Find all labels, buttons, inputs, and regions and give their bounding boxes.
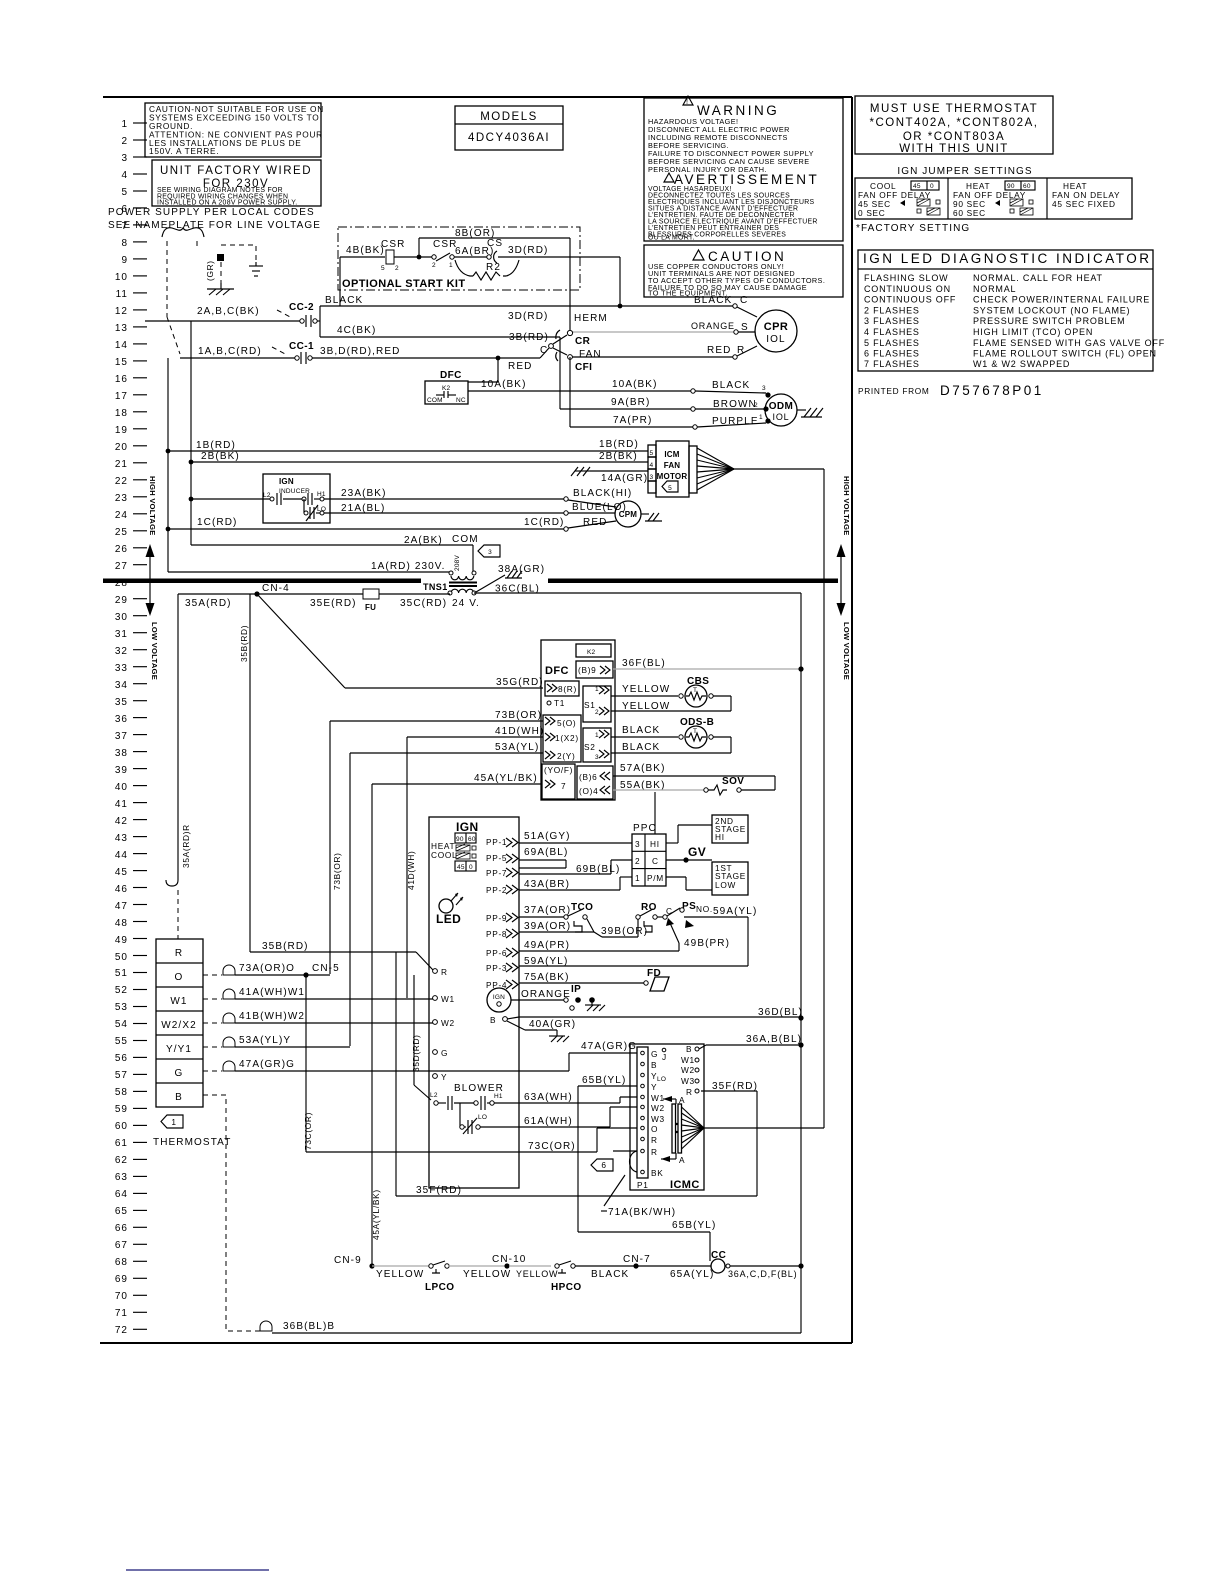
svg-text:14A(GR): 14A(GR) xyxy=(601,473,648,484)
svg-text:(B)6: (B)6 xyxy=(579,772,597,782)
svg-text:HIGH VOLTAGE: HIGH VOLTAGE xyxy=(148,476,157,536)
svg-text:44: 44 xyxy=(115,850,128,861)
svg-text:YELLOW: YELLOW xyxy=(376,1269,424,1280)
svg-text:43A(BR): 43A(BR) xyxy=(524,879,570,890)
svg-text:G: G xyxy=(441,1048,448,1058)
svg-text:3B,D(RD),RED: 3B,D(RD),RED xyxy=(320,346,400,357)
svg-text:H1: H1 xyxy=(494,1093,503,1100)
svg-text:CONTINUOUS ON: CONTINUOUS ON xyxy=(864,284,951,294)
svg-text:9A(BR): 9A(BR) xyxy=(611,397,650,408)
svg-text:YELLOW: YELLOW xyxy=(463,1269,511,1280)
svg-text:1(X2): 1(X2) xyxy=(555,733,579,743)
svg-text:53A(YL)Y: 53A(YL)Y xyxy=(239,1035,291,1046)
svg-text:LPCO: LPCO xyxy=(425,1282,454,1293)
svg-text:R: R xyxy=(651,1147,658,1157)
svg-text:SYSTEM LOCKOUT (NO FLAME): SYSTEM LOCKOUT (NO FLAME) xyxy=(973,305,1130,315)
svg-text:5: 5 xyxy=(381,265,385,272)
svg-text:W1: W1 xyxy=(441,994,455,1004)
svg-text:1: 1 xyxy=(121,119,128,130)
svg-text:COM: COM xyxy=(427,397,443,404)
svg-text:37A(OR): 37A(OR) xyxy=(524,905,571,916)
svg-text:CN-9: CN-9 xyxy=(334,1255,362,1266)
svg-text:60: 60 xyxy=(1023,183,1031,190)
svg-text:45A(YL/BK): 45A(YL/BK) xyxy=(474,773,538,784)
svg-text:R: R xyxy=(686,1087,693,1097)
svg-text:A: A xyxy=(679,1155,685,1165)
svg-text:69A(BL): 69A(BL) xyxy=(524,847,568,858)
svg-text:61: 61 xyxy=(115,1138,128,1149)
svg-text:49A(PR): 49A(PR) xyxy=(524,940,570,951)
svg-text:CONTINUOUS OFF: CONTINUOUS OFF xyxy=(864,295,956,305)
svg-text:39A(OR): 39A(OR) xyxy=(524,921,571,932)
svg-text:W2: W2 xyxy=(441,1018,455,1028)
svg-text:CFI: CFI xyxy=(575,362,592,373)
svg-text:G: G xyxy=(175,1068,184,1079)
svg-text:9: 9 xyxy=(121,255,128,266)
svg-text:68: 68 xyxy=(115,1257,128,1268)
svg-text:35F(RD): 35F(RD) xyxy=(416,1185,462,1196)
svg-text:LOW VOLTAGE: LOW VOLTAGE xyxy=(842,622,851,680)
svg-text:4DCY4036AI: 4DCY4036AI xyxy=(468,132,550,144)
svg-text:RED: RED xyxy=(508,361,532,372)
svg-text:69B(BL): 69B(BL) xyxy=(576,864,620,875)
svg-text:2B(BK): 2B(BK) xyxy=(201,451,240,462)
svg-text:1C(RD): 1C(RD) xyxy=(197,517,238,528)
svg-text:FLASHING SLOW: FLASHING SLOW xyxy=(864,273,948,283)
svg-text:71: 71 xyxy=(115,1308,128,1319)
svg-text:62: 62 xyxy=(115,1155,128,1166)
svg-text:22: 22 xyxy=(115,476,128,487)
svg-text:BROWN: BROWN xyxy=(713,399,757,410)
svg-text:AVERTISSEMENT: AVERTISSEMENT xyxy=(674,172,819,187)
svg-text:1A(RD) 230V.: 1A(RD) 230V. xyxy=(371,561,446,572)
svg-text:3D(RD): 3D(RD) xyxy=(508,311,549,322)
svg-text:CS: CS xyxy=(487,238,503,249)
svg-text:HPCO: HPCO xyxy=(551,1282,582,1293)
svg-text:MODELS: MODELS xyxy=(480,111,538,123)
svg-text:59: 59 xyxy=(115,1104,128,1115)
svg-text:2A,B,C(BK): 2A,B,C(BK) xyxy=(197,306,260,317)
svg-text:3 FLASHES: 3 FLASHES xyxy=(864,316,920,326)
svg-text:60 SEC: 60 SEC xyxy=(953,208,986,218)
svg-text:150V. A TERRE.: 150V. A TERRE. xyxy=(149,146,219,156)
svg-text:25: 25 xyxy=(115,527,128,538)
svg-text:8(R): 8(R) xyxy=(558,684,577,694)
svg-text:2(Y): 2(Y) xyxy=(557,751,575,761)
svg-text:2B(BK): 2B(BK) xyxy=(599,451,638,462)
svg-text:PP-1: PP-1 xyxy=(486,837,507,847)
svg-text:P/M: P/M xyxy=(647,873,664,883)
svg-text:1: 1 xyxy=(595,686,599,693)
svg-text:R2: R2 xyxy=(486,262,501,273)
svg-text:W1: W1 xyxy=(681,1055,695,1065)
svg-text:CC-1: CC-1 xyxy=(289,341,314,352)
svg-text:W3: W3 xyxy=(651,1114,665,1124)
svg-text:CPM: CPM xyxy=(619,510,638,519)
svg-text:CSR: CSR xyxy=(381,239,405,250)
svg-text:20: 20 xyxy=(115,442,128,453)
svg-text:4B(BK): 4B(BK) xyxy=(346,245,385,256)
svg-text:OU LA MORT.: OU LA MORT. xyxy=(648,235,695,242)
svg-text:*FACTORY SETTING: *FACTORY SETTING xyxy=(856,223,970,234)
svg-text:OR *CONT803A: OR *CONT803A xyxy=(903,131,1005,143)
svg-text:CHECK POWER/INTERNAL FAILURE: CHECK POWER/INTERNAL FAILURE xyxy=(973,295,1150,305)
svg-text:PRINTED FROM: PRINTED FROM xyxy=(858,386,930,396)
svg-text:30: 30 xyxy=(115,612,128,623)
svg-text:35G(RD): 35G(RD) xyxy=(496,677,544,688)
svg-text:10A(BK): 10A(BK) xyxy=(481,379,527,390)
svg-text:D757678P01: D757678P01 xyxy=(940,383,1044,398)
svg-text:45A(YL/BK): 45A(YL/BK) xyxy=(371,1189,381,1240)
svg-text:K2: K2 xyxy=(587,649,596,656)
svg-text:18: 18 xyxy=(115,408,128,419)
svg-text:36B(BL)B: 36B(BL)B xyxy=(283,1321,335,1332)
svg-text:65A(YL): 65A(YL) xyxy=(670,1269,714,1280)
svg-text:73A(OR)O: 73A(OR)O xyxy=(239,963,295,974)
svg-text:WARNING: WARNING xyxy=(697,103,779,118)
svg-text:12: 12 xyxy=(115,306,128,317)
svg-text:CN-4: CN-4 xyxy=(262,583,290,594)
svg-text:73C(OR): 73C(OR) xyxy=(303,1112,313,1150)
svg-text:10A(BK): 10A(BK) xyxy=(612,379,658,390)
svg-text:51A(GY): 51A(GY) xyxy=(524,831,571,842)
svg-text:73C(OR): 73C(OR) xyxy=(528,1141,576,1152)
svg-text:7A(PR): 7A(PR) xyxy=(613,415,652,426)
svg-text:C: C xyxy=(652,856,659,866)
svg-text:PP-6: PP-6 xyxy=(486,948,507,958)
svg-text:(O)4: (O)4 xyxy=(579,786,598,796)
svg-text:11: 11 xyxy=(116,289,128,300)
svg-text:90: 90 xyxy=(456,836,464,843)
svg-text:8B(OR): 8B(OR) xyxy=(455,228,496,239)
svg-text:4C(BK): 4C(BK) xyxy=(337,325,376,336)
svg-text:38: 38 xyxy=(115,748,128,759)
svg-text:IGN LED DIAGNOSTIC INDICATOR: IGN LED DIAGNOSTIC INDICATOR xyxy=(863,251,1152,266)
svg-text:35B(RD): 35B(RD) xyxy=(262,941,309,952)
svg-text:1: 1 xyxy=(635,873,640,883)
svg-text:53A(YL): 53A(YL) xyxy=(495,742,539,753)
svg-text:1B(RD): 1B(RD) xyxy=(599,439,639,450)
svg-text:36D(BL): 36D(BL) xyxy=(758,1007,803,1018)
svg-text:Y: Y xyxy=(651,1082,657,1092)
svg-text:55: 55 xyxy=(115,1036,128,1047)
svg-text:72: 72 xyxy=(115,1325,128,1336)
svg-text:0: 0 xyxy=(469,864,473,871)
svg-text:41D(WH): 41D(WH) xyxy=(406,851,416,890)
svg-text:YELLOW: YELLOW xyxy=(516,1269,558,1279)
svg-text:2 FLASHES: 2 FLASHES xyxy=(864,305,920,315)
svg-text:49: 49 xyxy=(115,935,128,946)
svg-text:50: 50 xyxy=(115,952,128,963)
svg-text:O: O xyxy=(651,1124,658,1134)
svg-text:S: S xyxy=(741,322,749,333)
svg-text:17: 17 xyxy=(115,391,128,402)
svg-text:MUST USE THERMOSTAT: MUST USE THERMOSTAT xyxy=(870,103,1038,115)
svg-text:36A,B(BL): 36A,B(BL) xyxy=(746,1034,802,1045)
svg-text:3: 3 xyxy=(762,385,766,392)
svg-text:58: 58 xyxy=(115,1087,128,1098)
svg-text:PP-9: PP-9 xyxy=(486,913,507,923)
svg-text:40A(GR): 40A(GR) xyxy=(529,1019,576,1030)
svg-text:48: 48 xyxy=(115,918,128,929)
svg-text:BLACK: BLACK xyxy=(622,725,660,736)
svg-text:24: 24 xyxy=(115,510,128,521)
svg-text:1: 1 xyxy=(595,732,599,739)
svg-text:B: B xyxy=(175,1092,183,1103)
svg-text:41: 41 xyxy=(115,799,128,810)
svg-text:0: 0 xyxy=(930,183,934,190)
svg-text:47A(GR)G: 47A(GR)G xyxy=(581,1041,637,1052)
svg-text:90: 90 xyxy=(1007,183,1015,190)
svg-text:57A(BK): 57A(BK) xyxy=(620,763,666,774)
svg-text:54: 54 xyxy=(115,1019,128,1030)
svg-text:OPTIONAL START KIT: OPTIONAL START KIT xyxy=(342,278,466,290)
svg-text:COOL: COOL xyxy=(431,850,457,860)
svg-text:Y/Y1: Y/Y1 xyxy=(166,1044,192,1055)
svg-text:PP-5: PP-5 xyxy=(486,853,507,863)
svg-text:15: 15 xyxy=(115,357,128,368)
svg-text:52: 52 xyxy=(115,985,128,996)
svg-text:CN-5: CN-5 xyxy=(312,963,340,974)
svg-text:26: 26 xyxy=(115,544,128,555)
svg-text:LOW: LOW xyxy=(715,880,736,890)
svg-text:YELLOW: YELLOW xyxy=(622,701,670,712)
svg-text:39B(OR): 39B(OR) xyxy=(601,926,648,937)
svg-text:FAN: FAN xyxy=(579,349,602,360)
svg-text:45: 45 xyxy=(913,183,921,190)
svg-text:PPC: PPC xyxy=(633,823,657,834)
svg-text:61A(WH): 61A(WH) xyxy=(524,1116,573,1127)
svg-text:CPR: CPR xyxy=(764,321,788,333)
svg-text:35A(RD)R: 35A(RD)R xyxy=(181,824,191,868)
svg-text:MOTOR: MOTOR xyxy=(657,472,688,481)
svg-text:27: 27 xyxy=(115,561,128,572)
svg-text:R: R xyxy=(651,1135,658,1145)
svg-text:BLACK: BLACK xyxy=(712,380,750,391)
svg-text:65: 65 xyxy=(115,1206,128,1217)
svg-text:1: 1 xyxy=(449,262,453,269)
svg-text:63: 63 xyxy=(115,1172,128,1183)
svg-text:45: 45 xyxy=(115,867,128,878)
svg-text:W1: W1 xyxy=(651,1093,665,1103)
svg-text:59A(YL): 59A(YL) xyxy=(524,956,568,967)
svg-text:2: 2 xyxy=(395,265,399,272)
svg-text:67: 67 xyxy=(115,1240,128,1251)
svg-text:64: 64 xyxy=(115,1189,128,1200)
svg-text:B: B xyxy=(490,1015,496,1025)
svg-text:W2/X2: W2/X2 xyxy=(161,1020,197,1031)
svg-text:3: 3 xyxy=(121,153,128,164)
svg-text:3: 3 xyxy=(595,754,599,761)
svg-text:16: 16 xyxy=(115,374,128,385)
svg-text:5(O): 5(O) xyxy=(557,718,576,728)
svg-text:INDUCER: INDUCER xyxy=(279,488,310,495)
svg-text:!: ! xyxy=(686,97,688,106)
svg-text:DFC: DFC xyxy=(545,665,569,677)
svg-text:B: B xyxy=(651,1060,657,1070)
svg-text:7: 7 xyxy=(561,781,566,791)
svg-text:10: 10 xyxy=(115,272,128,283)
svg-text:R: R xyxy=(175,948,183,959)
svg-text:2: 2 xyxy=(121,136,128,147)
svg-text:73B(OR): 73B(OR) xyxy=(332,852,342,890)
svg-text:4: 4 xyxy=(121,170,128,181)
svg-text:2A(BK): 2A(BK) xyxy=(404,535,443,546)
svg-text:45 SEC FIXED: 45 SEC FIXED xyxy=(1052,199,1116,209)
svg-text:NO.: NO. xyxy=(696,904,713,914)
svg-text:CSR: CSR xyxy=(433,239,457,250)
svg-text:PP-2: PP-2 xyxy=(486,885,507,895)
svg-text:THERMOSTAT: THERMOSTAT xyxy=(153,1137,231,1148)
svg-text:RED: RED xyxy=(707,345,731,356)
svg-text:35B(RD): 35B(RD) xyxy=(239,625,249,662)
svg-text:T1: T1 xyxy=(554,698,565,708)
svg-text:28: 28 xyxy=(115,578,128,589)
svg-text:43: 43 xyxy=(115,833,128,844)
svg-text:208V: 208V xyxy=(454,555,461,571)
svg-text:W2: W2 xyxy=(651,1103,665,1113)
svg-text:CN-7: CN-7 xyxy=(623,1254,651,1265)
svg-text:65B(YL): 65B(YL) xyxy=(582,1075,626,1086)
svg-text:K2: K2 xyxy=(442,385,451,392)
svg-text:40: 40 xyxy=(115,782,128,793)
svg-text:6 FLASHES: 6 FLASHES xyxy=(864,349,920,359)
svg-text:CC-2: CC-2 xyxy=(289,302,314,313)
svg-text:35E(RD): 35E(RD) xyxy=(310,598,357,609)
svg-text:FLAME SENSED WITH GAS VALVE OF: FLAME SENSED WITH GAS VALVE OFF xyxy=(973,338,1165,348)
svg-text:G: G xyxy=(651,1049,658,1059)
svg-text:21: 21 xyxy=(115,459,128,470)
svg-text:IP: IP xyxy=(571,984,581,995)
svg-text:37: 37 xyxy=(115,731,128,742)
svg-text:47: 47 xyxy=(115,901,128,912)
svg-text:NORMAL: NORMAL xyxy=(973,284,1016,294)
svg-text:IGN: IGN xyxy=(493,994,505,1001)
svg-text:TNS1: TNS1 xyxy=(423,582,448,592)
svg-text:WITH THIS UNIT: WITH THIS UNIT xyxy=(899,143,1009,155)
svg-text:L2: L2 xyxy=(263,492,271,499)
svg-text:19: 19 xyxy=(115,425,128,436)
svg-text:32: 32 xyxy=(115,646,128,657)
svg-text:ODM: ODM xyxy=(769,401,794,412)
svg-text:NORMAL. CALL FOR HEAT: NORMAL. CALL FOR HEAT xyxy=(973,273,1103,283)
svg-text:BLACK: BLACK xyxy=(622,742,660,753)
svg-text:41D(WH): 41D(WH) xyxy=(495,726,544,737)
svg-text:ORANGE: ORANGE xyxy=(691,321,735,331)
svg-text:23: 23 xyxy=(115,493,128,504)
svg-text:LOW VOLTAGE: LOW VOLTAGE xyxy=(150,622,159,680)
svg-text:35F(RD): 35F(RD) xyxy=(712,1081,758,1092)
svg-text:O: O xyxy=(175,972,184,983)
svg-text:B: B xyxy=(686,1044,692,1054)
svg-text:1A,B,C(RD): 1A,B,C(RD) xyxy=(198,346,262,357)
svg-text:59A(YL): 59A(YL) xyxy=(713,906,757,917)
svg-text:1C(RD): 1C(RD) xyxy=(524,517,565,528)
svg-text:21A(BL): 21A(BL) xyxy=(341,503,385,514)
svg-text:HI: HI xyxy=(650,839,660,849)
svg-text:UNIT FACTORY WIRED: UNIT FACTORY WIRED xyxy=(160,165,312,177)
svg-text:2: 2 xyxy=(432,262,436,269)
svg-text:W1: W1 xyxy=(170,996,187,1007)
svg-text:53: 53 xyxy=(115,1002,128,1013)
svg-text:2: 2 xyxy=(754,402,758,409)
svg-text:70: 70 xyxy=(115,1291,128,1302)
svg-text:PRESSURE SWITCH PROBLEM: PRESSURE SWITCH PROBLEM xyxy=(973,316,1125,326)
svg-text:P1: P1 xyxy=(637,1180,649,1190)
svg-text:49B(PR): 49B(PR) xyxy=(684,938,730,949)
svg-text:36A,C,D,F(BL): 36A,C,D,F(BL) xyxy=(728,1269,797,1279)
svg-text:38A(GR): 38A(GR) xyxy=(498,564,545,575)
svg-text:IGN JUMPER SETTINGS: IGN JUMPER SETTINGS xyxy=(897,166,1032,177)
svg-text:24 V.: 24 V. xyxy=(452,598,480,609)
svg-text:73B(OR): 73B(OR) xyxy=(495,710,542,721)
svg-text:47A(GR)G: 47A(GR)G xyxy=(239,1059,295,1070)
svg-text:14: 14 xyxy=(115,340,128,351)
svg-text:60: 60 xyxy=(115,1121,128,1132)
svg-text:35: 35 xyxy=(115,697,128,708)
svg-text:65B(YL): 65B(YL) xyxy=(672,1220,716,1231)
svg-text:3D(RD): 3D(RD) xyxy=(508,245,549,256)
svg-text:35C(RD): 35C(RD) xyxy=(400,598,447,609)
svg-text:4 FLASHES: 4 FLASHES xyxy=(864,327,920,337)
svg-text:63A(WH): 63A(WH) xyxy=(524,1092,573,1103)
svg-text:L2: L2 xyxy=(430,1092,438,1099)
svg-text:42: 42 xyxy=(115,816,128,827)
svg-text:GV: GV xyxy=(688,845,706,859)
svg-text:35A(RD): 35A(RD) xyxy=(185,598,232,609)
svg-text:5: 5 xyxy=(668,485,672,492)
svg-text:POWER SUPPLY PER LOCAL CODES: POWER SUPPLY PER LOCAL CODES xyxy=(108,207,315,218)
svg-text:LO: LO xyxy=(478,1114,487,1121)
svg-text:HIGH LIMIT (TCO) OPEN: HIGH LIMIT (TCO) OPEN xyxy=(973,327,1093,337)
svg-text:BLACK: BLACK xyxy=(591,1269,629,1280)
svg-text:HERM: HERM xyxy=(574,313,608,324)
svg-text:5: 5 xyxy=(121,187,128,198)
svg-text:7 FLASHES: 7 FLASHES xyxy=(864,359,920,369)
svg-text:FLAME ROLLOUT SWITCH (FL) OPEN: FLAME ROLLOUT SWITCH (FL) OPEN xyxy=(973,349,1157,359)
svg-text:S2: S2 xyxy=(584,742,596,752)
svg-text:34: 34 xyxy=(115,680,128,691)
svg-text:IGN: IGN xyxy=(456,820,479,834)
svg-text:CR: CR xyxy=(575,336,591,347)
svg-text:ORANGE: ORANGE xyxy=(521,989,571,1000)
svg-text:S1: S1 xyxy=(584,700,596,710)
svg-text:35D(RD): 35D(RD) xyxy=(411,1034,421,1072)
svg-text:PP-7: PP-7 xyxy=(486,868,507,878)
svg-text:66: 66 xyxy=(115,1223,128,1234)
svg-text:0 SEC: 0 SEC xyxy=(858,208,885,218)
svg-text:LO: LO xyxy=(657,1076,666,1083)
svg-text:60: 60 xyxy=(468,836,476,843)
svg-text:LED: LED xyxy=(436,912,461,926)
svg-text:HI: HI xyxy=(715,832,725,842)
svg-text:*CONT402A, *CONT802A,: *CONT402A, *CONT802A, xyxy=(870,117,1039,129)
svg-text:CN-10: CN-10 xyxy=(492,1254,526,1265)
svg-text:NC: NC xyxy=(456,397,466,404)
svg-text:8: 8 xyxy=(121,238,128,249)
svg-text:5: 5 xyxy=(650,450,654,457)
svg-text:1: 1 xyxy=(171,1117,176,1127)
svg-text:3: 3 xyxy=(635,839,640,849)
svg-text:46: 46 xyxy=(115,884,128,895)
svg-text:DFC: DFC xyxy=(440,370,462,381)
svg-text:HIGH VOLTAGE: HIGH VOLTAGE xyxy=(842,476,851,536)
svg-text:36: 36 xyxy=(115,714,128,725)
svg-text:C: C xyxy=(740,295,748,306)
svg-text:23A(BK): 23A(BK) xyxy=(341,488,387,499)
svg-text:57: 57 xyxy=(115,1070,128,1081)
svg-text:13: 13 xyxy=(115,323,128,334)
